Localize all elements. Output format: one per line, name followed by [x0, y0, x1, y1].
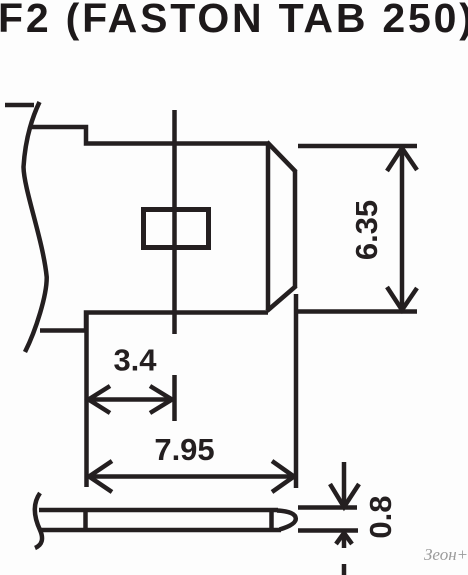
label 7.95	[154, 432, 214, 467]
bottom chamfer edge	[267, 286, 296, 311]
side view divider at shoulder	[83, 510, 88, 530]
svg-text:7.95: 7.95	[154, 432, 214, 467]
title F2 (FASTON TAB 250)	[0, 0, 468, 41]
side view tip crease	[269, 510, 274, 530]
extension line left (3.4 and 7.95)	[84, 312, 89, 487]
side view top edge	[39, 508, 278, 513]
arrowhead right 7.95	[272, 461, 294, 492]
arrowhead left 7.95	[89, 461, 112, 492]
arrowhead right 3.4	[150, 386, 172, 413]
centerline	[172, 110, 177, 334]
dimension line 3.4	[89, 397, 173, 402]
dimension leader down 0.8	[342, 462, 347, 506]
extension line top (0.8)	[298, 505, 357, 510]
top chamfer edge	[267, 142, 296, 172]
label 6.35	[349, 200, 384, 260]
dimension line 7.95	[89, 474, 294, 479]
extension line right (7.95)	[294, 294, 299, 488]
label 0.8	[363, 495, 398, 538]
top-left break tick	[5, 103, 34, 108]
dimension line 6.35	[400, 149, 405, 309]
tab upper step outline	[30, 127, 268, 144]
side view bottom edge	[40, 528, 281, 533]
arrowhead up 0.8	[336, 533, 352, 548]
tab tip edge	[293, 171, 298, 288]
svg-text:F2 (FASTON TAB 250): F2 (FASTON TAB 250)	[0, 0, 468, 41]
arrowhead down 6.35	[387, 287, 417, 310]
arrowhead up 6.35	[387, 148, 417, 171]
extension line top (6.35)	[298, 144, 417, 149]
extension line bottom (6.35)	[295, 309, 417, 314]
svg-text:Зеон+: Зеон+	[424, 545, 468, 564]
arrowhead down 0.8	[330, 484, 359, 507]
extension tick right (3.4)	[172, 375, 177, 421]
dimension leader tail 0.8	[342, 564, 347, 575]
hole in tab	[144, 210, 209, 248]
arrowhead left 3.4	[89, 386, 111, 413]
break line (wavy) top view	[24, 102, 47, 352]
label 3.4	[113, 343, 157, 378]
side view break line	[35, 493, 42, 548]
svg-text:6.35: 6.35	[349, 200, 384, 260]
svg-text:3.4: 3.4	[113, 343, 157, 378]
side view rounded tip	[277, 511, 296, 530]
tab lower step outline	[40, 313, 268, 331]
extension line bottom (0.8)	[298, 528, 358, 533]
watermark	[424, 545, 468, 564]
svg-text:0.8: 0.8	[363, 495, 398, 538]
chamfer crease line	[266, 144, 271, 311]
